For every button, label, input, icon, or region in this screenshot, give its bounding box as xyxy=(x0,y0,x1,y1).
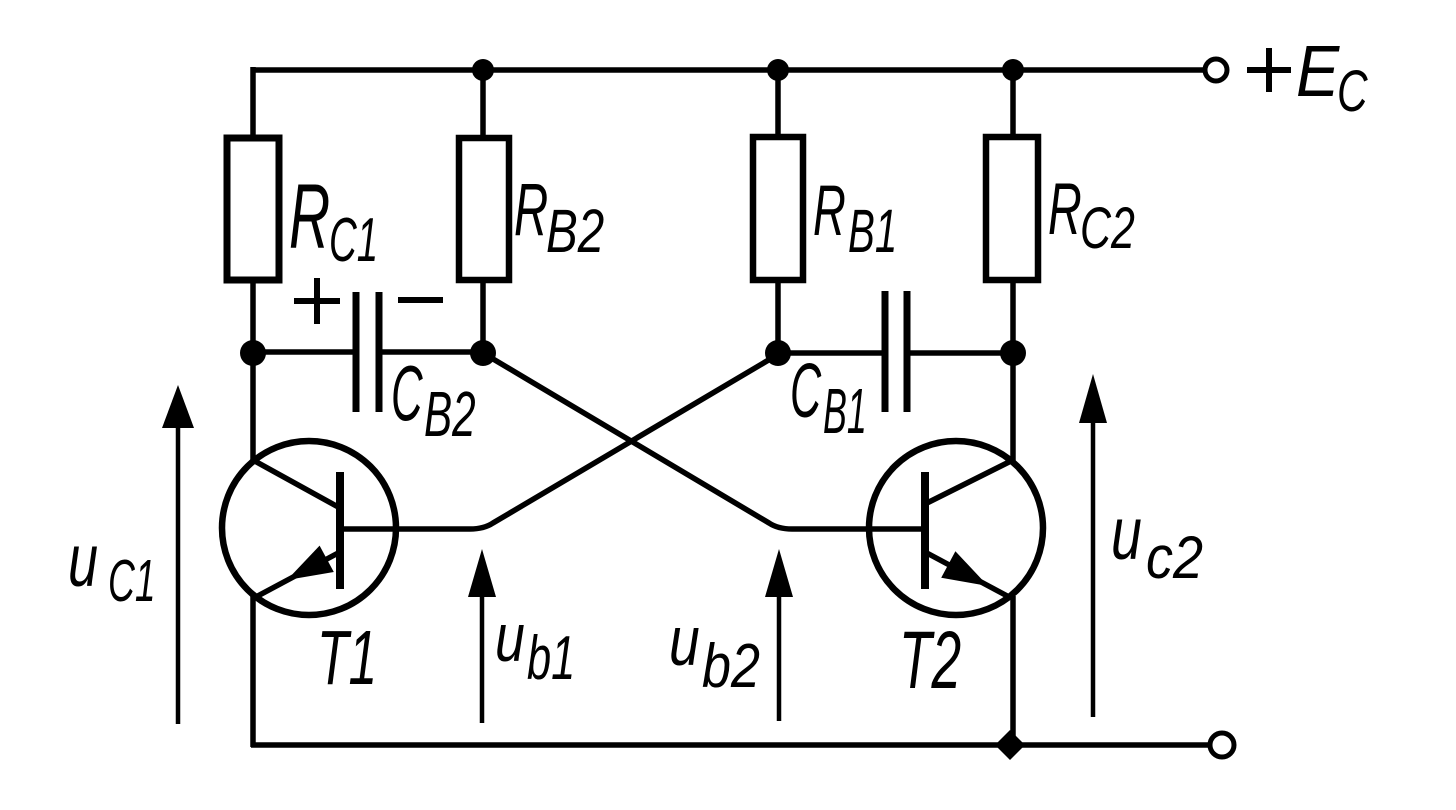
node junction dot top rail at RC2 xyxy=(1002,59,1024,81)
transistor T1 collector diagonal xyxy=(253,460,340,508)
svg-text:B1: B1 xyxy=(848,197,897,265)
wire RB2 top xyxy=(480,68,486,140)
transistor T2 circle xyxy=(869,441,1043,615)
svg-text:u: u xyxy=(495,600,525,675)
wire T1 emitter down xyxy=(250,596,256,747)
svg-text:R: R xyxy=(813,171,846,251)
node junction dot top rail at RB1 xyxy=(767,59,789,81)
wire T2 emitter down xyxy=(1010,596,1016,748)
terminal bottom open circle xyxy=(1210,733,1234,757)
wire bottom rail xyxy=(251,742,1211,748)
svg-text:C1: C1 xyxy=(329,205,378,275)
transistor T1 base bar xyxy=(336,472,344,589)
minus polarity mark CB2 xyxy=(398,297,443,303)
node junction dot top rail at RB2 xyxy=(472,59,494,81)
wire RB1 top xyxy=(775,68,781,140)
wire top rail xyxy=(251,67,1205,73)
wire RB2 bottom xyxy=(480,278,486,356)
svg-text:u: u xyxy=(68,519,98,602)
arrow uc1 xyxy=(176,400,181,724)
wire CB2 left lead xyxy=(253,349,353,355)
node junction dot CB2 right xyxy=(470,340,496,366)
capacitor CB1 plates xyxy=(882,291,889,412)
wire RC2 top xyxy=(1010,68,1016,140)
resistor RC2 xyxy=(986,137,1038,280)
transistor T1 circle xyxy=(222,441,396,615)
svg-text:C1: C1 xyxy=(108,548,156,614)
resistor RB1 xyxy=(753,137,803,280)
resistor RB2 xyxy=(459,138,509,280)
transistor T2 emitter diagonal xyxy=(925,552,1011,598)
label +Ec plus sign xyxy=(1247,67,1291,73)
svg-text:b2: b2 xyxy=(702,632,760,701)
svg-text:B1: B1 xyxy=(823,375,867,447)
wire junction to T1 collector xyxy=(250,353,256,463)
svg-text:C2: C2 xyxy=(1080,196,1135,261)
arrow ub1 xyxy=(480,560,485,723)
node junction dot CB1 right xyxy=(1000,340,1026,366)
transistor T1 emitter arrowhead xyxy=(287,546,334,580)
node junction dot left mid xyxy=(240,340,266,366)
wire left drop from rail to RC1 xyxy=(250,67,256,140)
wire CB1 left lead xyxy=(778,350,882,356)
transistor T2 base bar xyxy=(921,472,929,589)
svg-text:c2: c2 xyxy=(1146,524,1203,591)
wire CB1 right lead xyxy=(910,350,1014,356)
capacitor CB2 plates xyxy=(353,292,360,412)
svg-text:E: E xyxy=(1296,31,1340,112)
wire CB2 right lead xyxy=(382,349,483,355)
resistor RC1 xyxy=(227,138,279,280)
transistor T2 emitter arrowhead xyxy=(941,551,988,586)
svg-text:T1: T1 xyxy=(317,615,377,701)
svg-text:R: R xyxy=(514,169,548,251)
terminal +Ec open circle xyxy=(1205,59,1227,81)
wire RB1 bottom xyxy=(775,278,781,356)
svg-text:b1: b1 xyxy=(527,625,575,693)
wire RC2 bottom xyxy=(1010,278,1016,356)
node junction diamond bottom xyxy=(995,730,1025,760)
arrow uc2 xyxy=(1091,395,1096,717)
svg-text:C: C xyxy=(790,349,822,434)
svg-text:C: C xyxy=(391,351,423,437)
arrow ub2 xyxy=(777,560,782,721)
wire T2 base lead and cross-coupling to CB2 right xyxy=(483,353,923,529)
transistor T1 emitter diagonal xyxy=(254,552,340,598)
node junction dot CB1 left xyxy=(765,340,791,366)
svg-text:C: C xyxy=(1337,58,1368,123)
wire RC1 bottom xyxy=(250,278,256,356)
svg-text:R: R xyxy=(1048,168,1082,249)
svg-text:u: u xyxy=(1111,492,1142,575)
svg-text:R: R xyxy=(289,166,330,268)
svg-text:B2: B2 xyxy=(546,196,604,265)
svg-text:B2: B2 xyxy=(424,379,476,450)
wire T1 base lead and cross-coupling to CB1 left xyxy=(341,355,777,529)
transistor T2 collector diagonal xyxy=(925,460,1013,504)
plus polarity mark CB2 xyxy=(294,298,340,304)
svg-text:u: u xyxy=(669,603,700,681)
wire T2 collector up xyxy=(1010,353,1016,462)
svg-text:T2: T2 xyxy=(899,613,961,705)
